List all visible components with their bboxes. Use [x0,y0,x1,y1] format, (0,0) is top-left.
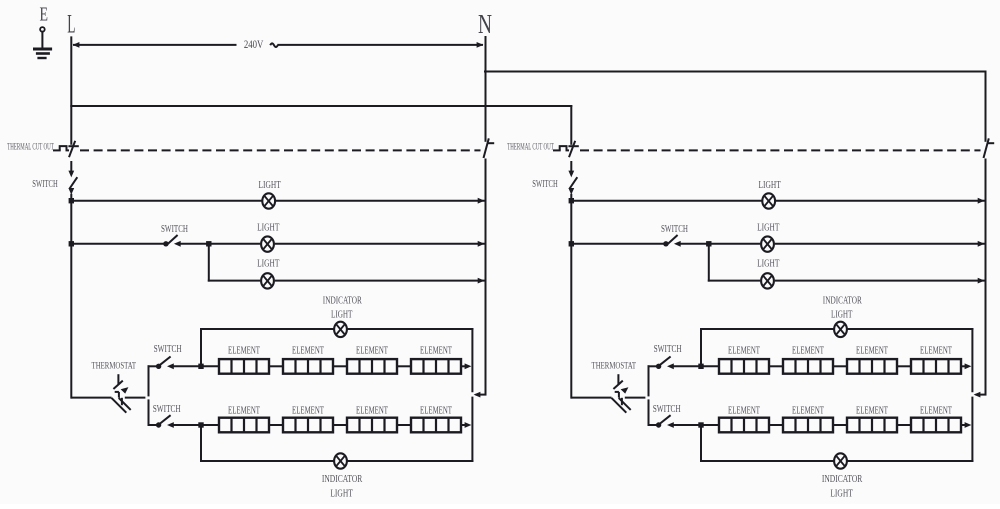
wire indicator lower (B) [701,460,833,462]
thermostat contact (A) [117,374,119,385]
wire element link upper 3 (B) [897,365,911,367]
svg-text:LIGHT: LIGHT [757,222,780,233]
wire N join to loop (B) [977,394,986,396]
svg-text:ELEMENT: ELEMENT [356,345,388,356]
lamp INDICATOR lower (B) [834,453,847,468]
svg-text:ELEMENT: ELEMENT [856,405,888,416]
wire upper row to elements (B) [672,365,719,367]
svg-text:ELEMENT: ELEMENT [356,405,388,416]
wire L rail below cutout (B) [570,162,572,172]
wire element feeder vertical (B) [648,366,650,395]
wire indicator upper (B) [701,328,833,330]
wire element link lower 2 (A) [333,424,347,426]
element R1 upper (A) [219,359,269,374]
lamp LIGHT row2 (A) [261,236,274,251]
wire element feeder vertical (A) [148,366,150,395]
voltage dimension line 240V [74,44,236,46]
svg-text:LIGHT: LIGHT [257,222,280,233]
switch row2 pivot (A) [163,241,168,246]
svg-text:LIGHT: LIGHT [757,258,780,269]
wire L rail rows (A) [70,201,72,398]
svg-text:ELEMENT: ELEMENT [420,345,452,356]
junction row1 (B) [569,198,574,203]
svg-text:ELEMENT: ELEMENT [792,345,824,356]
element R4 upper (A) [411,359,461,374]
svg-text:E: E [39,4,48,26]
wire L rail upper (B) [570,106,572,144]
wire indicator upper branch (A) [200,329,202,366]
svg-text:N: N [478,9,492,39]
junction row2/row3 branch (A) [206,241,211,246]
main switch blade (B) [569,177,577,189]
element switch upper pivot (A) [156,364,161,369]
wire row2 right (B) [679,243,760,245]
wire upper row to elements (A) [172,365,219,367]
svg-text:THERMAL CUT OUT: THERMAL CUT OUT [507,141,554,151]
thermostat contact (B) [617,374,619,385]
svg-text:L: L [67,9,75,38]
element R4 upper (B) [911,359,961,374]
svg-text:ELEMENT: ELEMENT [920,345,952,356]
svg-text:SWITCH: SWITCH [153,404,181,415]
wire upper row left (A) [149,365,157,367]
thermal cutout contact blade, N pole (B) [984,138,989,158]
svg-text:SWITCH: SWITCH [161,224,188,235]
wire N join to loop (A) [477,394,486,396]
element R2 upper (B) [783,359,833,374]
wire element link lower 3 (A) [397,424,411,426]
wire N rail lower (A) [485,160,487,394]
wire upper row to loop (B) [961,365,965,367]
svg-text:LIGHT: LIGHT [330,488,353,499]
junction upper indicator branch (A) [198,364,203,369]
svg-text:INDICATOR: INDICATOR [822,474,863,485]
wire lower row to loop (A) [461,424,465,426]
wire row2 left (B) [571,243,663,245]
element R5 lower (A) [219,418,269,433]
wire row2 right (A) [179,243,260,245]
wire upper row to loop (A) [461,365,465,367]
wire lower row left (A) [149,424,157,426]
wire lower row to elements (A) [172,424,219,426]
AC squiggle [270,43,278,47]
svg-text:ELEMENT: ELEMENT [420,405,452,416]
wire L rail below cutout (A) [70,162,72,172]
element R6 lower (B) [783,418,833,433]
element switch lower pivot (A) [156,422,161,427]
wire row3 (A) [209,280,259,282]
thermal cutout sensor bump (A) [54,149,60,151]
element R6 lower (A) [283,418,333,433]
svg-text:LIGHT: LIGHT [758,180,781,191]
switch row2 blade (A) [167,235,178,245]
wire row1 (A) [71,200,260,202]
wire L rail to thermostat (A) [71,397,111,399]
svg-text:ELEMENT: ELEMENT [856,345,888,356]
wire N rail upper (B) [985,72,987,141]
element switch lower blade (B) [660,415,671,424]
svg-text:INDICATOR: INDICATOR [323,296,362,307]
wire element link lower 1 (A) [269,424,283,426]
element R7 lower (A) [347,418,397,433]
wire element link upper 2 (B) [833,365,847,367]
element switch upper pivot (B) [656,364,661,369]
mechanical link dashed wire (A) [80,149,481,151]
junction row2 (A) [69,241,74,246]
thermal cutout sensor bump (B) [554,149,560,151]
svg-text:ELEMENT: ELEMENT [728,345,760,356]
svg-text:SWITCH: SWITCH [532,179,558,190]
svg-text:SWITCH: SWITCH [154,344,182,355]
wire indicator lower (A) [201,460,333,462]
wire upper row left (B) [649,365,657,367]
svg-text:INDICATOR: INDICATOR [322,474,363,485]
svg-text:SWITCH: SWITCH [661,224,688,235]
wire lower row to elements (B) [672,424,719,426]
wire L feed to right section (y=106) [71,105,571,107]
wire row2 left (A) [71,243,163,245]
wire element link upper 1 (A) [269,365,283,367]
wire indicator upper branch (B) [700,329,702,366]
wire rail to row1 (A) [70,195,72,201]
element switch upper blade (A) [160,357,171,366]
svg-text:LIGHT: LIGHT [258,180,281,191]
wire N rail lower (B) [985,160,987,394]
lamp LIGHT row3 (A) [261,273,274,288]
junction row1 (A) [69,198,74,203]
lamp LIGHT row2 (B) [761,236,774,251]
svg-text:LIGHT: LIGHT [331,309,353,320]
element R8 lower (B) [911,418,961,433]
wire L rail rows (B) [570,201,572,398]
wire element link lower 3 (B) [897,424,911,426]
svg-text:LIGHT: LIGHT [257,258,280,269]
element R1 upper (B) [719,359,769,374]
lamp INDICATOR upper (B) [834,322,847,337]
svg-text:LIGHT: LIGHT [830,488,853,499]
wire thermostat output (B) [626,397,645,399]
mechanical link dashed wire (B) [580,149,981,151]
junction lower indicator branch (B) [698,422,703,427]
element R7 lower (B) [847,418,897,433]
wire indicator lower branch (B) [700,425,702,461]
wire element link lower 1 (B) [769,424,783,426]
junction row2/row3 branch (B) [706,241,711,246]
wire element link upper 3 (A) [397,365,411,367]
wire thermostat output (A) [126,397,145,399]
wire loop right vertical (B) [971,329,973,391]
wire L rail to thermostat (B) [571,397,611,399]
wire loop right vertical (A) [471,329,473,391]
svg-text:ELEMENT: ELEMENT [920,405,952,416]
thermal cutout contact blade, L pole (A) [69,141,75,157]
element switch lower pivot (B) [656,422,661,427]
wire row3 branch (A) [208,244,210,281]
wire N rail upper (A) [485,37,487,141]
svg-text:SWITCH: SWITCH [32,179,58,190]
wire row1 (B) [571,200,760,202]
wire element link lower 2 (B) [833,424,847,426]
earth symbol [40,27,45,32]
wire rail to row1 (B) [570,195,572,201]
svg-text:THERMAL CUT OUT: THERMAL CUT OUT [7,141,54,151]
wire indicator lower branch (A) [200,425,202,461]
main switch blade (A) [69,177,77,189]
junction row2 (B) [569,241,574,246]
svg-text:ELEMENT: ELEMENT [292,345,324,356]
wire row3 (B) [709,280,760,282]
wire element link upper 2 (A) [333,365,347,367]
element R3 upper (A) [347,359,397,374]
svg-text:LIGHT: LIGHT [831,309,853,320]
switch row2 blade (B) [667,235,678,245]
lamp LIGHT row3 (B) [761,273,774,288]
svg-text:240V: 240V [244,37,264,51]
wire L rail upper (A) [70,37,72,143]
lamp INDICATOR upper (A) [334,322,347,337]
svg-text:THERMOSTAT: THERMOSTAT [592,362,637,372]
element switch lower blade (A) [160,415,171,424]
wire lower row to loop (B) [961,424,965,426]
wire N feed to right section (y=71.5) [485,71,986,73]
svg-text:ELEMENT: ELEMENT [792,405,824,416]
lamp INDICATOR lower (A) [334,453,347,468]
thermal cutout contact blade, L pole (B) [569,141,575,157]
wire element link upper 1 (B) [769,365,783,367]
wire row3 branch (B) [708,244,710,281]
svg-text:ELEMENT: ELEMENT [228,405,260,416]
svg-text:ELEMENT: ELEMENT [728,405,760,416]
wire indicator upper (A) [201,328,333,330]
svg-text:INDICATOR: INDICATOR [823,296,862,307]
wire lower row left (B) [649,424,657,426]
element R2 upper (A) [283,359,333,374]
svg-text:SWITCH: SWITCH [654,344,682,355]
lamp LIGHT row1 (B) [762,193,775,208]
element switch upper blade (B) [660,357,671,366]
switch row2 pivot (B) [663,241,668,246]
svg-text:THERMOSTAT: THERMOSTAT [92,362,137,372]
junction lower indicator branch (A) [198,422,203,427]
element R3 upper (B) [847,359,897,374]
junction upper indicator branch (B) [698,364,703,369]
svg-text:SWITCH: SWITCH [653,404,681,415]
element R5 lower (B) [719,418,769,433]
svg-text:ELEMENT: ELEMENT [228,345,260,356]
element R8 lower (A) [411,418,461,433]
lamp LIGHT row1 (A) [262,193,275,208]
svg-text:ELEMENT: ELEMENT [292,405,324,416]
thermal cutout contact blade, N pole (A) [484,138,489,158]
